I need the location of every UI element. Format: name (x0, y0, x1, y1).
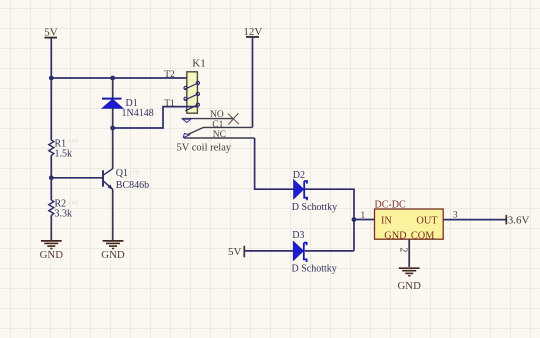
ground (397, 268, 421, 292)
svg-text:5V: 5V (228, 246, 242, 258)
svg-text:1: 1 (361, 211, 366, 221)
svg-text:BC846b: BC846b (116, 180, 149, 191)
svg-text:5V coil relay: 5V coil relay (177, 143, 232, 154)
svg-text:3.6V: 3.6V (508, 214, 530, 226)
svg-text:D Schottky: D Schottky (292, 202, 337, 213)
wire D1 cathode (112, 78, 114, 99)
diode D1 (102, 99, 123, 109)
svg-text:D3: D3 (292, 230, 304, 241)
svg-text:1.5k: 1.5k (55, 148, 73, 159)
wire D1 to T1 (113, 107, 187, 128)
resistor R1 (49, 140, 54, 155)
junction (49, 76, 54, 81)
ground (101, 241, 125, 261)
svg-text:3: 3 (453, 210, 458, 220)
converter U DC-DC (375, 209, 444, 241)
junction (49, 175, 54, 180)
wire into IN (354, 219, 375, 221)
svg-text:K1: K1 (192, 58, 205, 70)
svg-text:IN: IN (381, 216, 392, 227)
wire T1 under coil (187, 106, 198, 108)
svg-text:GND: GND (40, 249, 64, 261)
wire GND pin (408, 239, 410, 267)
power port 12V (243, 26, 262, 38)
power port 3.6V (506, 214, 529, 226)
transistor Q1 (103, 169, 113, 190)
svg-text:GND: GND (397, 280, 421, 292)
wire 12V to C1 (252, 37, 254, 127)
wire OUT (443, 219, 506, 221)
svg-text:Q1: Q1 (116, 168, 128, 179)
junction node 1 (352, 217, 357, 222)
wire 5V vertical (50, 38, 52, 140)
wire NC to D2 (255, 138, 294, 189)
svg-text:2: 2 (398, 247, 409, 252)
svg-text:DC-DC: DC-DC (375, 200, 406, 211)
relay NO contact (182, 119, 234, 123)
ground (40, 241, 64, 261)
svg-text:T2: T2 (164, 70, 175, 80)
svg-text:D2: D2 (293, 170, 305, 181)
junction (110, 126, 115, 131)
svg-text:3.3k: 3.3k (55, 208, 73, 219)
resistor R2 (49, 200, 54, 215)
relay common arm (183, 127, 252, 137)
wire D1 anode (112, 108, 114, 169)
power port 5V (44, 27, 58, 39)
svg-text:GND: GND (101, 249, 125, 261)
power port 5V (D3) (228, 246, 244, 258)
junction (110, 76, 115, 81)
svg-text:NO: NO (210, 110, 224, 120)
svg-text:APR: APR (67, 139, 79, 145)
svg-text:C1: C1 (212, 120, 223, 130)
svg-text:T1: T1 (164, 99, 175, 109)
no-connect X (228, 113, 239, 124)
wire R1 to R2 (50, 155, 52, 200)
wire D2 to node 1 (305, 189, 354, 251)
svg-text:APR: APR (67, 201, 79, 207)
svg-text:D Schottky: D Schottky (292, 263, 337, 274)
wire D3 to node 1 (305, 250, 354, 252)
diode D3 (293, 242, 306, 263)
wire top rail (51, 77, 187, 79)
wire base (51, 177, 103, 179)
wire emitter to GND (112, 189, 114, 240)
svg-text:APR: APR (128, 171, 140, 177)
relay K1 (184, 72, 199, 113)
svg-text:OUT: OUT (416, 216, 438, 227)
svg-text:1N4148: 1N4148 (122, 108, 154, 119)
wire R2 to GND (50, 215, 52, 240)
svg-text:COM: COM (411, 230, 434, 241)
diode D2 (294, 180, 307, 200)
svg-text:GND: GND (384, 230, 407, 241)
wire 5V to D3 (244, 250, 293, 252)
relay NC contact (184, 137, 255, 139)
